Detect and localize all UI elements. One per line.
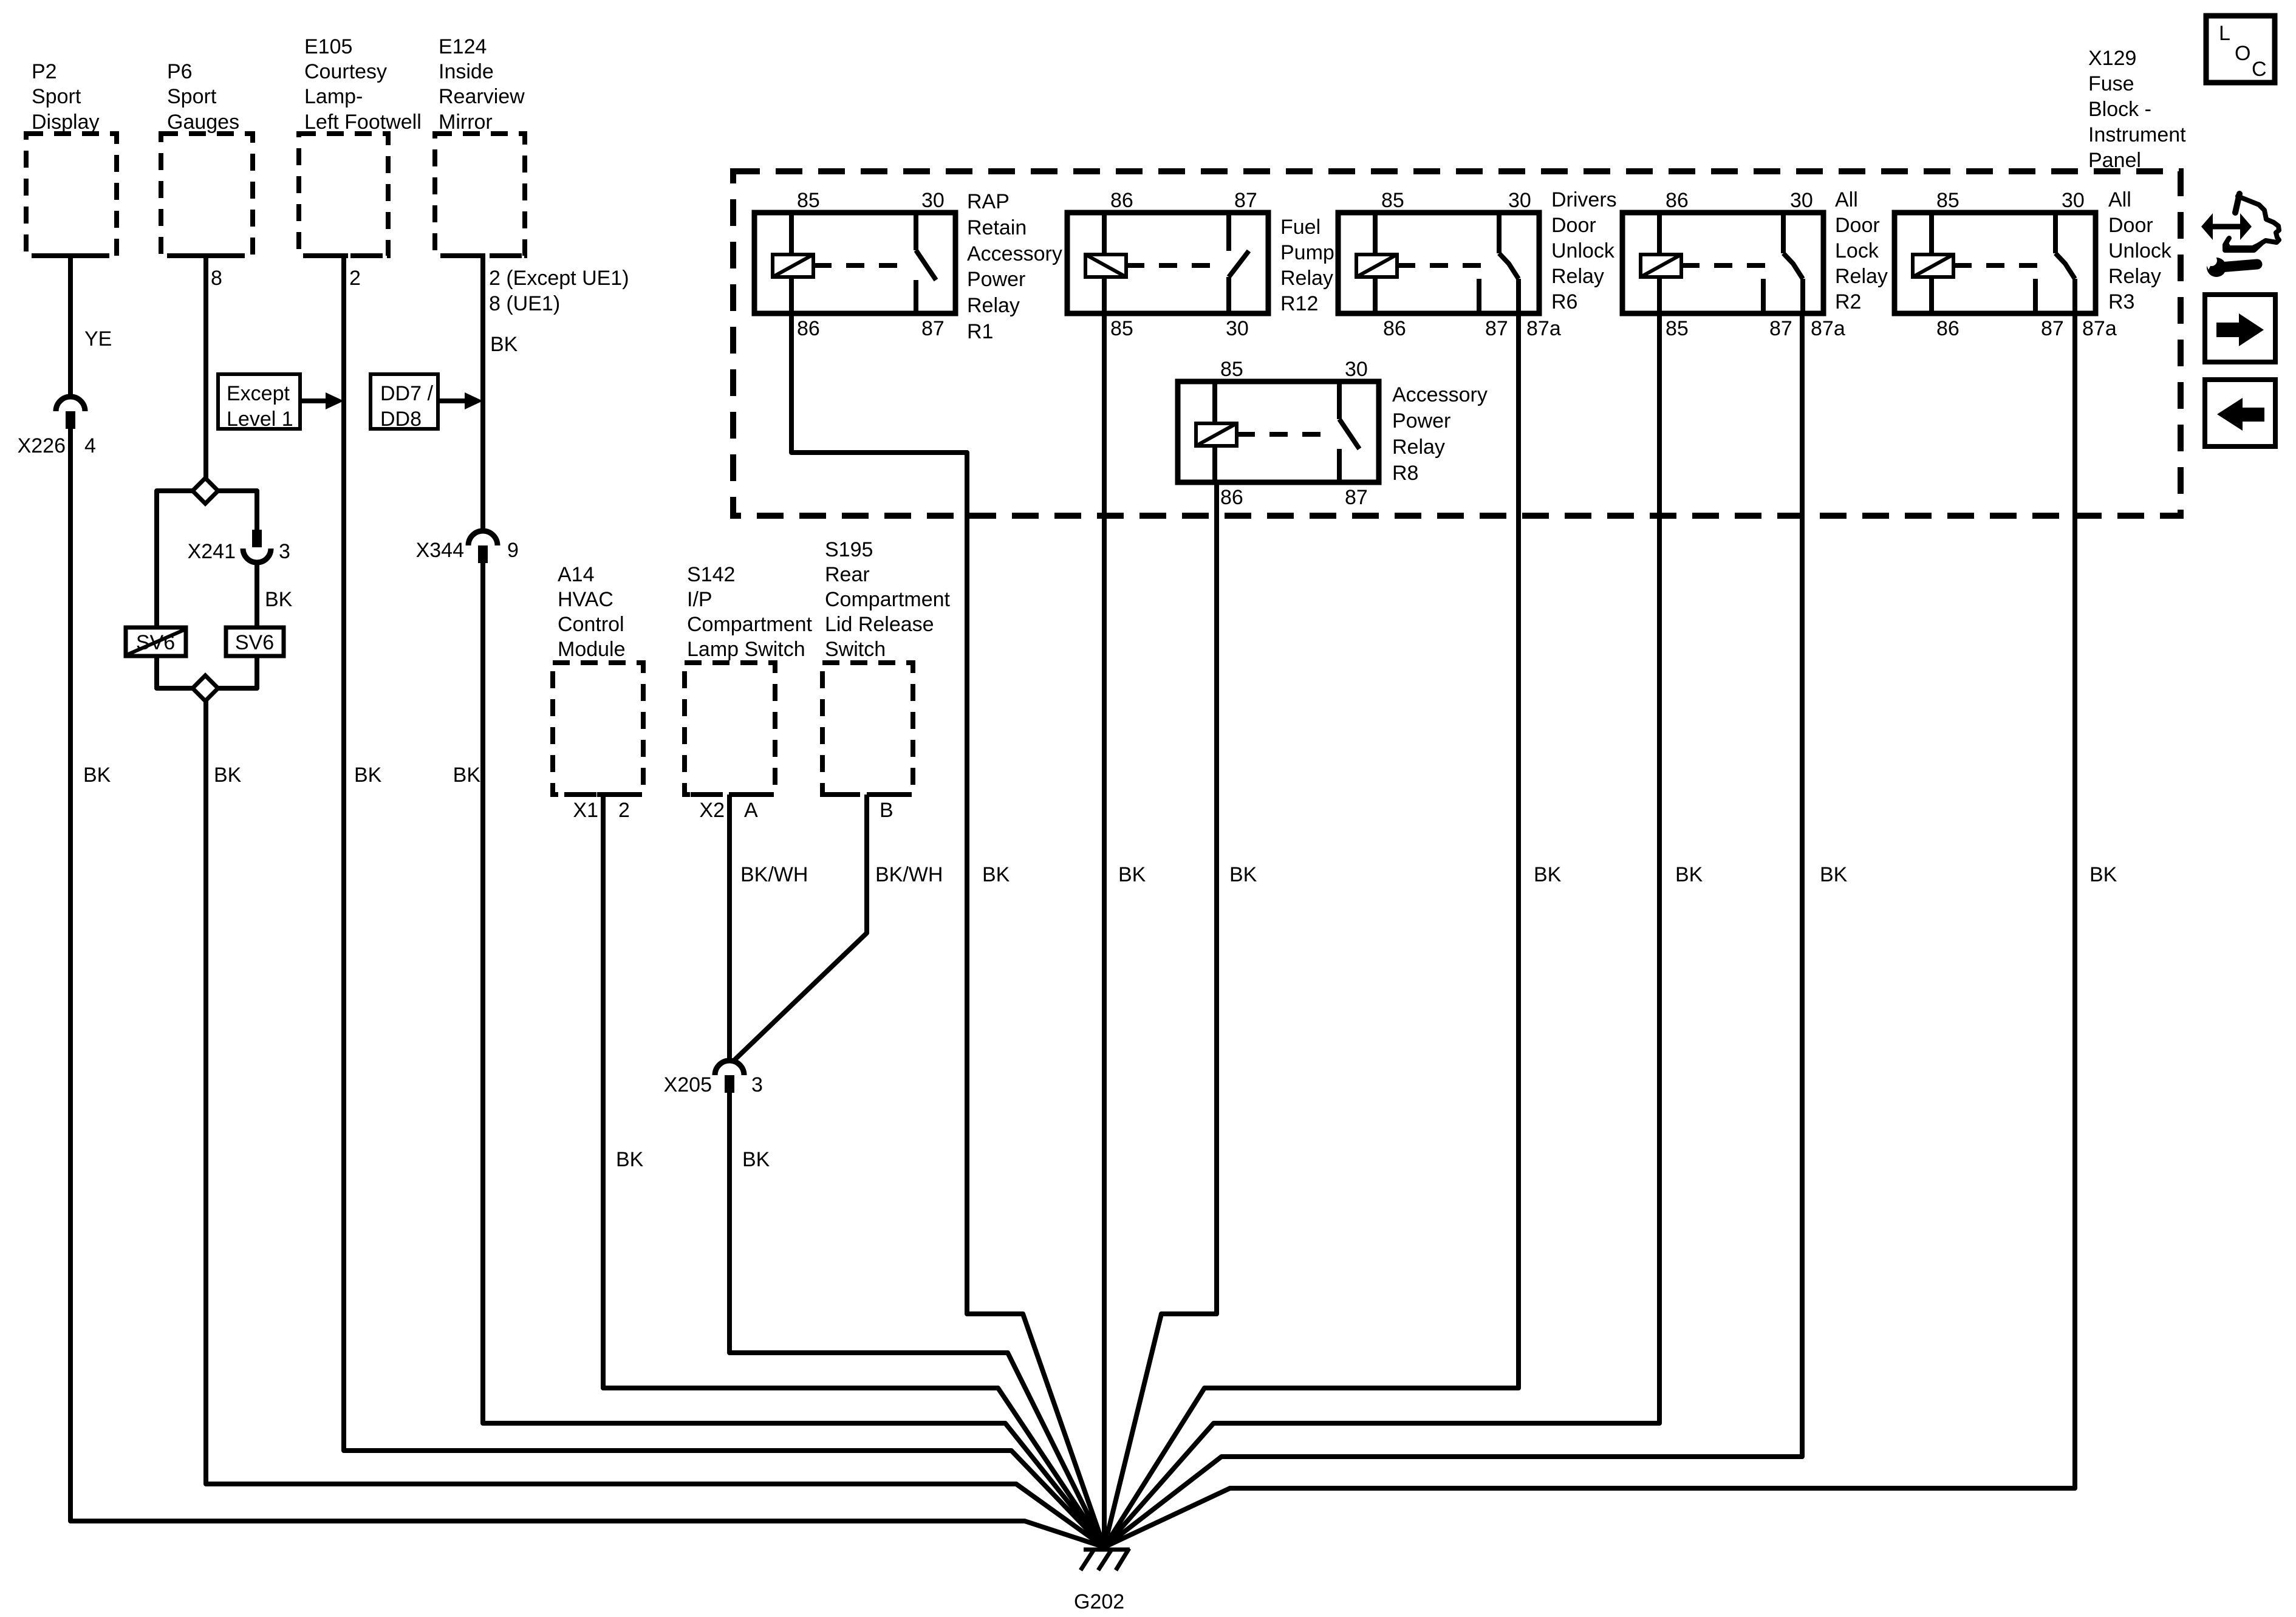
svg-text:Pump: Pump <box>1280 241 1334 264</box>
svg-text:86: 86 <box>1383 317 1406 340</box>
svg-text:Drivers: Drivers <box>1551 188 1617 211</box>
svg-text:30: 30 <box>1226 317 1249 340</box>
svg-text:Switch: Switch <box>825 638 886 661</box>
wire E105 pin 2 to G202 (BK) <box>344 256 1104 1547</box>
svg-text:S195: S195 <box>825 538 873 561</box>
svg-text:BK: BK <box>982 863 1010 886</box>
svg-text:Courtesy: Courtesy <box>304 60 387 83</box>
wire right branch middle <box>255 562 259 627</box>
svg-text:X226: X226 <box>18 434 66 457</box>
connector X226 pin 4 (in-line) <box>18 397 96 457</box>
wire X205 to G202 (BK) <box>729 1092 1104 1547</box>
svg-text:2: 2 <box>618 799 630 822</box>
svg-text:3: 3 <box>279 540 290 563</box>
svg-text:Block -: Block - <box>2088 98 2151 121</box>
svg-text:Except: Except <box>227 382 290 405</box>
svg-text:85: 85 <box>1381 189 1404 212</box>
option box SV6 <box>226 627 284 656</box>
wire P2 pin 4 to G202 (YE/BK) <box>70 256 1104 1547</box>
backward arrow legend box <box>2205 380 2275 446</box>
svg-text:E124: E124 <box>439 35 487 58</box>
svg-text:All: All <box>1835 188 1858 211</box>
svg-text:85: 85 <box>797 189 820 212</box>
svg-text:Inside: Inside <box>439 60 494 83</box>
wire left branch lower <box>157 656 193 688</box>
svg-text:87a: 87a <box>1526 317 1561 340</box>
svg-text:Rear: Rear <box>825 563 870 586</box>
svg-text:Relay: Relay <box>1835 265 1888 288</box>
svg-text:BK: BK <box>83 764 111 787</box>
svg-text:Instrument: Instrument <box>2088 123 2186 146</box>
svg-text:4: 4 <box>84 434 96 457</box>
svg-text:A14: A14 <box>558 563 595 586</box>
svg-text:BK: BK <box>214 764 242 787</box>
option box SV6 (crossed out) <box>126 627 186 656</box>
svg-text:86: 86 <box>1666 189 1689 212</box>
svg-text:Door: Door <box>1551 214 1596 237</box>
svg-text:2 (Except UE1): 2 (Except UE1) <box>489 267 629 290</box>
svg-text:BK: BK <box>1534 863 1562 886</box>
svg-text:87: 87 <box>1485 317 1508 340</box>
svg-text:R3: R3 <box>2108 290 2134 313</box>
svg-text:Fuel: Fuel <box>1280 216 1321 239</box>
svg-text:Mirror: Mirror <box>439 111 493 134</box>
svg-text:Accessory: Accessory <box>1392 383 1488 406</box>
svg-text:Module: Module <box>558 638 626 661</box>
svg-text:Door: Door <box>2108 214 2153 237</box>
svg-text:X129: X129 <box>2088 47 2136 70</box>
svg-text:Gauges: Gauges <box>167 111 239 134</box>
relay R2 All Door Lock Relay <box>1622 188 1888 340</box>
svg-text:X344: X344 <box>416 539 464 562</box>
svg-text:Relay: Relay <box>1551 265 1604 288</box>
wire P6 pin 8 to split junction <box>206 256 222 478</box>
component S142 I/P Compartment Lamp Switch (dashed box) <box>685 563 813 822</box>
svg-text:Retain: Retain <box>967 216 1027 239</box>
svg-text:R2: R2 <box>1835 290 1861 313</box>
svg-text:87: 87 <box>1345 486 1368 509</box>
svg-text:Fuse: Fuse <box>2088 72 2134 95</box>
wire R6 pin 87a to G202 (BK) <box>1104 313 1562 1547</box>
svg-text:Rearview: Rearview <box>439 85 525 108</box>
svg-text:BK: BK <box>742 1148 770 1171</box>
svg-text:87a: 87a <box>2082 317 2117 340</box>
svg-text:BK: BK <box>490 333 518 356</box>
svg-text:Door: Door <box>1835 214 1880 237</box>
svg-text:Unlock: Unlock <box>1551 239 1615 262</box>
svg-text:3: 3 <box>751 1073 763 1096</box>
svg-text:Relay: Relay <box>1392 436 1445 459</box>
wire R2 pin 87a to G202 (BK) <box>1104 313 1848 1547</box>
forward arrow legend box <box>2205 295 2275 362</box>
component P2 Sport Display (dashed box) <box>26 60 117 256</box>
svg-text:E105: E105 <box>304 35 352 58</box>
svg-text:R1: R1 <box>967 320 993 343</box>
wire R12 pin 85 to G202 (BK) <box>1104 313 1146 1547</box>
svg-text:X241: X241 <box>188 540 236 563</box>
svg-text:87: 87 <box>1769 317 1792 340</box>
option box Except Level 1 with arrow <box>218 374 344 431</box>
svg-text:DD8: DD8 <box>380 408 422 431</box>
svg-text:Unlock: Unlock <box>2108 239 2172 262</box>
svg-text:86: 86 <box>1936 317 1959 340</box>
svg-text:BK: BK <box>616 1148 644 1171</box>
svg-text:Level 1: Level 1 <box>227 408 293 431</box>
X129 Fuse Block - Instrument Panel (dashed border) <box>733 47 2186 516</box>
car body / double-arrow service icon <box>2225 194 2279 250</box>
svg-text:BK: BK <box>265 588 293 611</box>
svg-text:X1: X1 <box>573 799 598 822</box>
svg-text:BK/WH: BK/WH <box>875 863 943 886</box>
svg-text:Sport: Sport <box>32 85 81 108</box>
wire R8 pin 86 to G202 (BK) <box>1104 482 1257 1547</box>
ground G202 <box>1074 1548 1130 1613</box>
svg-text:Power: Power <box>967 268 1025 291</box>
svg-text:87: 87 <box>1234 189 1257 212</box>
svg-text:30: 30 <box>921 189 945 212</box>
wire R2 pin 85 to G202 (BK) <box>1104 313 1703 1547</box>
svg-text:Compartment: Compartment <box>825 588 951 611</box>
connector X344 pin 9 (in-line) <box>416 531 519 563</box>
wire E124 pin 2/8 to X344 (BK) <box>483 256 629 532</box>
svg-text:X2: X2 <box>699 799 725 822</box>
svg-text:8 (UE1): 8 (UE1) <box>489 292 560 315</box>
svg-text:B: B <box>880 799 893 822</box>
svg-text:30: 30 <box>1790 189 1813 212</box>
wire X344 to G202 (BK) <box>453 563 1104 1547</box>
svg-text:Power: Power <box>1392 409 1450 432</box>
svg-text:87: 87 <box>2041 317 2064 340</box>
component E105 Courtesy Lamp - Left Footwell (dashed box) <box>299 35 422 256</box>
component P6 Sport Gauges (dashed box) <box>161 60 253 256</box>
svg-text:S142: S142 <box>687 563 735 586</box>
svg-text:Lock: Lock <box>1835 239 1879 262</box>
svg-text:Panel: Panel <box>2088 149 2141 172</box>
svg-text:85: 85 <box>1110 317 1133 340</box>
svg-text:BK: BK <box>1229 863 1257 886</box>
svg-text:R8: R8 <box>1392 462 1418 485</box>
svg-text:R12: R12 <box>1280 292 1318 315</box>
svg-text:BK: BK <box>453 764 481 787</box>
svg-text:BK/WH: BK/WH <box>740 863 808 886</box>
svg-text:X205: X205 <box>664 1073 712 1096</box>
option box DD7 / DD8 with arrow <box>371 374 483 431</box>
svg-text:O: O <box>2235 42 2250 65</box>
svg-text:Compartment: Compartment <box>687 613 813 636</box>
component A14 HVAC Control Module (dashed box) <box>553 563 643 822</box>
wire P6 branch merge to G202 (BK) <box>206 700 1104 1547</box>
wire right branch (SV6) upper <box>218 491 257 530</box>
LOC legend box <box>2206 16 2275 83</box>
svg-text:DD7 /: DD7 / <box>380 382 433 405</box>
relay R1 RAP Retain Accessory Power Relay <box>754 189 1062 343</box>
svg-text:85: 85 <box>1666 317 1689 340</box>
connector X241 pin 3 (in-line) <box>188 530 293 611</box>
relay R12 Fuel Pump Relay <box>1067 189 1334 340</box>
wire A14 X1-2 to G202 (BK) <box>603 795 1104 1547</box>
svg-text:30: 30 <box>2062 189 2085 212</box>
svg-text:YE: YE <box>84 327 112 350</box>
svg-text:L: L <box>2219 22 2230 45</box>
svg-text:BK: BK <box>1675 863 1703 886</box>
component S195 Rear Compartment Lid Release Switch (dashed box) <box>822 538 951 822</box>
relay R6 Drivers Door Unlock Relay <box>1338 188 1617 340</box>
svg-text:BK: BK <box>1820 863 1848 886</box>
junction diamond (top split) <box>193 478 218 504</box>
svg-text:30: 30 <box>1345 358 1368 381</box>
svg-text:85: 85 <box>1220 358 1243 381</box>
svg-text:I/P: I/P <box>687 588 712 611</box>
wrench icon <box>2200 250 2257 277</box>
svg-text:85: 85 <box>1936 189 1959 212</box>
svg-text:86: 86 <box>1110 189 1133 212</box>
svg-text:C: C <box>2252 58 2267 81</box>
relay R8 Accessory Power Relay <box>1178 358 1488 509</box>
svg-text:Lid Release: Lid Release <box>825 613 934 636</box>
svg-text:SV6: SV6 <box>235 631 274 654</box>
svg-text:Relay: Relay <box>2108 265 2161 288</box>
svg-text:9: 9 <box>507 539 519 562</box>
wire right branch lower <box>218 656 257 688</box>
svg-text:Left Footwell: Left Footwell <box>304 111 422 134</box>
svg-text:All: All <box>2108 188 2131 211</box>
svg-text:86: 86 <box>1220 486 1243 509</box>
svg-text:Relay: Relay <box>1280 267 1333 290</box>
relay R3 All Door Unlock Relay <box>1895 188 2172 340</box>
component E124 Inside Rearview Mirror (dashed box) <box>435 35 525 256</box>
svg-text:2: 2 <box>349 267 361 290</box>
svg-text:87: 87 <box>921 317 945 340</box>
svg-text:Control: Control <box>558 613 624 636</box>
svg-text:G202: G202 <box>1074 1590 1124 1613</box>
svg-text:HVAC: HVAC <box>558 588 613 611</box>
connector X205 pin 3 (in-line) <box>664 1061 763 1096</box>
svg-text:8: 8 <box>211 267 222 290</box>
svg-text:30: 30 <box>1508 189 1531 212</box>
svg-text:Lamp-: Lamp- <box>304 85 363 108</box>
junction diamond (bottom merge) <box>193 675 218 701</box>
svg-text:Relay: Relay <box>967 294 1020 317</box>
svg-text:Sport: Sport <box>167 85 217 108</box>
wire left branch (Except SV6) <box>157 491 193 627</box>
svg-text:Display: Display <box>32 111 99 134</box>
svg-text:P2: P2 <box>32 60 57 83</box>
svg-text:R6: R6 <box>1551 290 1577 313</box>
svg-text:87a: 87a <box>1811 317 1845 340</box>
svg-text:BK: BK <box>1118 863 1146 886</box>
wire S142 X2-A to X205 (BK/WH) <box>729 795 808 1061</box>
svg-text:86: 86 <box>797 317 820 340</box>
wire R3 pin 87a to G202 (BK) <box>1104 313 2117 1547</box>
svg-text:RAP: RAP <box>967 190 1010 213</box>
svg-text:Accessory: Accessory <box>967 242 1062 265</box>
svg-text:BK: BK <box>2089 863 2117 886</box>
svg-text:A: A <box>744 799 758 822</box>
svg-text:P6: P6 <box>167 60 193 83</box>
svg-text:BK: BK <box>354 764 382 787</box>
wire S195 B to X205 (BK/WH) <box>732 795 943 1062</box>
wire R1 pin 86 to G202 (BK) <box>791 313 1104 1547</box>
svg-text:Lamp Switch: Lamp Switch <box>687 638 805 661</box>
